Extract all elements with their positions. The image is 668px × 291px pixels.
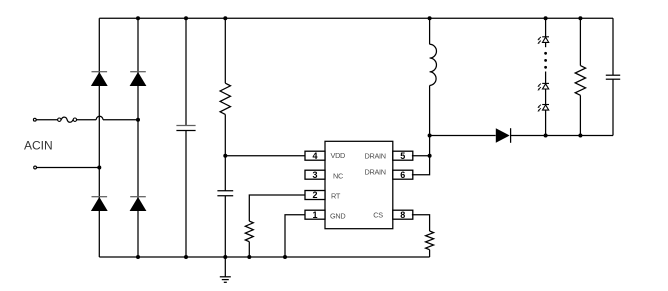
pin 3 box bbox=[305, 170, 325, 180]
resistor R3 (CS sense) bbox=[426, 231, 434, 257]
resistor R1 (startup, top rail to VDD) bbox=[220, 18, 230, 190]
wire: hop to leg 2 bbox=[103, 119, 138, 121]
svg-text:2: 2 bbox=[312, 190, 317, 200]
pin 2 box bbox=[305, 190, 325, 200]
resistor R4 (output dummy load) bbox=[575, 18, 585, 135]
junction: top rail / C1 bbox=[184, 16, 188, 20]
svg-text:3: 3 bbox=[312, 170, 317, 180]
wire: AC line 1 to fuse bbox=[36, 119, 57, 121]
junction: bottom rail / leg 2 bbox=[136, 255, 140, 259]
terminal: AC input line 2 bbox=[34, 166, 37, 169]
LED LED2 bbox=[537, 83, 549, 90]
wire: top rail (rectified + bus) bbox=[99, 17, 613, 19]
terminal: AC input line 1 bbox=[33, 118, 36, 121]
svg-text:RT: RT bbox=[331, 191, 341, 200]
pin 1 box bbox=[305, 210, 325, 220]
svg-text:CS: CS bbox=[373, 211, 383, 220]
junction: top rail / inductor L1 bbox=[428, 16, 432, 20]
junction: AC line 1 on leg 2 bbox=[136, 118, 140, 122]
ellipsis: more LEDs bbox=[544, 52, 547, 69]
diode D1 (bridge, leg 1 upper) bbox=[91, 72, 108, 86]
junction: bottom rail / ground bbox=[223, 255, 227, 259]
capacitor C3 (output) bbox=[606, 18, 620, 135]
ground symbol bbox=[220, 257, 231, 282]
wire: VDD node to pin 4 bbox=[225, 155, 305, 157]
wire: pin 1 GND to bottom rail bbox=[285, 215, 305, 257]
junction: bottom rail / pin 1 wire bbox=[283, 255, 287, 259]
wire: bridge leg 2 vertical bbox=[137, 18, 139, 257]
wire: bridge leg 1 vertical bbox=[98, 18, 100, 257]
capacitor C2 (VDD bypass) bbox=[217, 191, 233, 257]
junction: AC line 2 on leg 1 bbox=[97, 166, 101, 170]
svg-text:VDD: VDD bbox=[331, 151, 346, 160]
junction: top rail / LED string bbox=[544, 16, 548, 20]
pin 5 box bbox=[393, 151, 413, 161]
svg-text:DRAIN: DRAIN bbox=[365, 151, 386, 160]
resistor R2 (RT set) bbox=[245, 221, 253, 257]
junction: top rail / R4 bbox=[578, 16, 582, 20]
op IC U1 body bbox=[325, 141, 393, 228]
svg-text:DRAIN: DRAIN bbox=[365, 168, 386, 177]
diode D5 (output rectifier) bbox=[496, 128, 511, 143]
junction: VDD node (R1 / C2 / pin 4 wire) bbox=[223, 154, 227, 158]
diode D3 (bridge, leg 1 lower) bbox=[91, 197, 108, 211]
wire: pin 8 CS to R3 bbox=[412, 215, 430, 231]
pin 4 box bbox=[305, 151, 325, 161]
svg-text:NC: NC bbox=[333, 171, 343, 180]
diode D2 (bridge, leg 2 upper) bbox=[130, 72, 147, 86]
junction: output wire / R4 bbox=[578, 134, 582, 138]
svg-text:6: 6 bbox=[400, 170, 405, 180]
wire: LED string lower segment bbox=[545, 72, 547, 136]
fuse F1 bbox=[58, 117, 77, 122]
LED LED1 bbox=[537, 37, 549, 44]
pin 6 box bbox=[393, 170, 413, 180]
svg-text:8: 8 bbox=[400, 210, 405, 220]
svg-text:1: 1 bbox=[312, 210, 317, 220]
svg-text:4: 4 bbox=[312, 151, 317, 161]
LED LED3 bbox=[537, 105, 549, 112]
junction: top rail / leg 2 bbox=[136, 16, 140, 20]
junction: bottom rail / R2 bbox=[247, 255, 251, 259]
capacitor C1 (input bulk) bbox=[176, 18, 195, 257]
wire: LED string upper segment bbox=[545, 18, 547, 47]
svg-text:GND: GND bbox=[330, 211, 345, 220]
wire: fuse to hop bbox=[77, 119, 96, 121]
inductor L1 bbox=[430, 18, 437, 135]
junction: top rail / R1 bbox=[223, 16, 227, 20]
wire: bottom rail (ground bus) bbox=[99, 256, 429, 258]
wire: pin 6 to drain vertical bbox=[412, 136, 430, 175]
junction: bottom rail / C1 bbox=[184, 255, 188, 259]
diode D4 (bridge, leg 2 lower) bbox=[130, 197, 147, 211]
pin 8 box bbox=[393, 210, 413, 220]
wire: RT net (pin 2 to R2) bbox=[249, 195, 305, 221]
wire hop: AC line 1 crosses leg 1 (no connection) bbox=[96, 116, 103, 119]
svg-text:5: 5 bbox=[400, 151, 405, 161]
wire: drain node to diode D5 bbox=[430, 135, 496, 137]
junction: drain vertical / pin 5 bbox=[428, 154, 432, 158]
junction: output wire / LED string bbox=[544, 134, 548, 138]
wire: pin 5 to drain vertical bbox=[412, 155, 430, 157]
wire: diode D5 to output right corner bbox=[511, 135, 613, 137]
junction: drain node (inductor / diode wire / drain vertical) bbox=[428, 134, 432, 138]
wire: AC line 2 to leg 1 bbox=[37, 167, 100, 169]
svg-text:ACIN: ACIN bbox=[24, 139, 53, 153]
